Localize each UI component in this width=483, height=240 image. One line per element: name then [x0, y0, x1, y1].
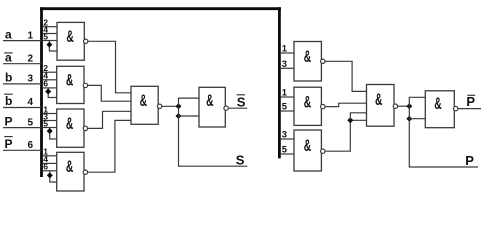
wire junction to inverter DD4.2 input 2 [409, 118, 425, 120]
middle AND gate DD2.1 box [131, 86, 158, 124]
DD1.3 output bubble [83, 126, 87, 130]
DD2.1 output bubble [157, 104, 161, 108]
wire junction to inverter DD4.2 input 1 [409, 97, 425, 106]
svg-text:a: a [5, 28, 12, 42]
DD3.1 output bubble [321, 59, 325, 63]
DD4.2 output bubble [454, 106, 458, 110]
wire DD3.2 out to DD4.1 [325, 103, 367, 106]
svg-text:5: 5 [282, 144, 287, 155]
gate DD1.4 stub 6 [43, 170, 57, 172]
junction diamond gate 2 [45, 89, 51, 95]
gate DD1.2 stub 6 [43, 87, 57, 89]
DD4.1 output bubble [393, 104, 397, 108]
DD1.2 output bubble [83, 83, 87, 87]
svg-text:&: & [66, 70, 73, 89]
input P wire [3, 127, 42, 129]
svg-text:3: 3 [282, 58, 287, 69]
svg-text:6: 6 [28, 140, 34, 151]
svg-text:5: 5 [282, 101, 287, 112]
svg-text:3: 3 [282, 129, 287, 140]
inverter gate DD2.2 box [199, 87, 225, 127]
svg-text:b: b [5, 71, 12, 85]
gate DD1.2 stub 4 [43, 79, 57, 81]
input a-bar wire [3, 63, 42, 65]
wire junction to inverter input 1 [179, 98, 200, 106]
tied-input wire gate 1 [49, 41, 57, 52]
wire DD1.1 out to middle gate [88, 41, 131, 93]
AND gate DD3.2 box [294, 87, 321, 125]
svg-text:&: & [140, 91, 147, 110]
wire junction down to S output [179, 116, 248, 166]
svg-text:2: 2 [28, 53, 34, 64]
svg-text:P: P [5, 115, 13, 129]
gate DD3.2 stub 1 [281, 96, 295, 98]
svg-text:&: & [304, 92, 311, 111]
svg-text:&: & [304, 136, 311, 155]
DD3.3 output bubble [321, 149, 325, 153]
svg-text:&: & [206, 91, 213, 110]
input b-bar wire [3, 107, 42, 109]
gate DD1.3 stub 5 [43, 127, 57, 129]
gate DD3.3 stub 5 [281, 153, 295, 155]
svg-text:&: & [434, 94, 441, 113]
right bus [278, 7, 281, 158]
tied-input wire gate 4 [50, 171, 57, 182]
gate DD1.1 stub 2 [43, 26, 58, 28]
svg-text:4: 4 [28, 97, 34, 108]
svg-text:&: & [66, 27, 73, 46]
node junction S lower [176, 113, 182, 119]
input a wire [3, 40, 42, 42]
gate DD1.4 stub 1 [43, 155, 57, 157]
AND gate DD1.3 box [57, 109, 84, 147]
node junction P lower [406, 116, 412, 122]
svg-text:3: 3 [28, 74, 34, 85]
wire S-bar out [228, 107, 247, 109]
svg-text:&: & [304, 47, 311, 66]
svg-text:5: 5 [28, 118, 34, 129]
svg-text:&: & [66, 114, 73, 133]
svg-text:b: b [5, 94, 12, 108]
gate DD1.4 stub 4 [43, 162, 57, 164]
AND gate DD1.1 box [57, 22, 84, 60]
AND gate DD3.1 box [294, 42, 321, 82]
gate DD1.3 stub 3 [43, 120, 57, 122]
svg-text:S: S [237, 95, 246, 110]
svg-text:5: 5 [43, 31, 48, 41]
middle AND gate DD4.1 box [367, 85, 395, 127]
wire junction to inverter input 2 [179, 115, 200, 117]
junction diamond gate 1 [46, 42, 52, 48]
gate DD3.3 stub 3 [281, 138, 295, 140]
junction diamond gate 3 [47, 128, 53, 134]
wire DD2.1 out [162, 105, 179, 107]
DD1.1 output bubble [84, 39, 88, 43]
junction diamond gate 4 [47, 172, 53, 178]
tied-input wire gate 3 [50, 128, 57, 140]
svg-text:5: 5 [43, 118, 48, 128]
junction diamond DD4.1 tied input [347, 117, 353, 123]
inverter gate DD4.2 box [425, 91, 454, 128]
gate DD1.2 stub 2 [43, 71, 57, 73]
DD2.2 output bubble [224, 106, 228, 110]
wire DD1.3 out to middle gate [88, 111, 131, 128]
svg-text:6: 6 [43, 79, 48, 89]
svg-text:S: S [236, 153, 245, 168]
gate DD1.1 stub 5 [43, 40, 58, 42]
svg-text:1: 1 [282, 43, 287, 54]
svg-text:6: 6 [43, 162, 48, 172]
svg-text:P: P [465, 153, 474, 168]
AND gate DD1.4 box [57, 152, 84, 191]
AND gate DD1.2 box [57, 66, 84, 103]
input P-bar wire [3, 149, 42, 151]
wire DD4.1 out [398, 105, 410, 107]
wire between P junctions [408, 106, 410, 119]
wire DD3.1 out to DD4.1 [325, 61, 367, 91]
svg-text:&: & [375, 90, 382, 109]
gate DD1.3 stub 1 [43, 113, 57, 115]
svg-text:P: P [5, 137, 13, 151]
gate DD3.1 stub 3 [281, 67, 295, 69]
svg-text:P: P [466, 94, 475, 109]
wire junction down to P output [409, 119, 478, 167]
wire P-bar out [458, 108, 481, 110]
gate DD3.1 stub 1 [281, 52, 295, 54]
tied-input wire gate 2 [48, 88, 57, 98]
node junction P upper [406, 103, 412, 109]
DD1.4 output bubble [83, 170, 87, 174]
wire DD3.3 out rising to DD4.1 [325, 120, 367, 151]
svg-text:&: & [66, 157, 73, 176]
frame top border [40, 7, 281, 10]
wire DD1.2 out to middle gate [88, 85, 131, 101]
wire between junctions [178, 106, 180, 116]
input b wire [3, 83, 42, 85]
gate DD3.2 stub 5 [281, 110, 295, 112]
tied-input wire DD4.1 [350, 113, 366, 121]
wire DD1.4 out to middle gate [88, 120, 131, 172]
svg-text:1: 1 [28, 31, 34, 42]
svg-text:1: 1 [282, 87, 287, 98]
gate DD1.1 stub 4 [43, 33, 58, 35]
left bus [40, 7, 43, 177]
AND gate DD3.3 box [294, 130, 321, 171]
node junction S upper [176, 103, 182, 109]
DD3.2 output bubble [321, 104, 325, 108]
